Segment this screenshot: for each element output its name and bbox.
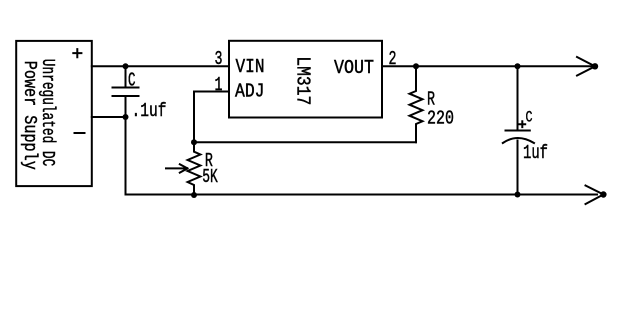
op-amp regulator U1 LM317 box <box>229 41 382 118</box>
svg-text:C: C <box>526 109 533 127</box>
junction dot top rail at C1 <box>123 63 129 69</box>
output arrow bottom <box>586 186 604 205</box>
wire ADJ vertical <box>193 92 195 143</box>
minus terminal <box>75 132 85 134</box>
svg-text:220: 220 <box>427 108 454 130</box>
plus polarity mark <box>519 121 525 127</box>
power supply box <box>16 41 92 186</box>
plus terminal <box>73 49 81 57</box>
svg-text:VOUT: VOUT <box>334 57 374 79</box>
wire ADJ run to R1 <box>194 141 416 143</box>
svg-text:ADJ: ADJ <box>235 80 265 102</box>
svg-text:LM317: LM317 <box>292 56 314 105</box>
junction dot bottom rail at C2 <box>515 192 521 198</box>
output arrow top <box>577 57 595 76</box>
junction dot bottom rail at pot <box>191 192 197 198</box>
svg-text:1uf: 1uf <box>523 142 548 164</box>
wire left vertical drop to bottom rail <box>125 117 127 195</box>
svg-text:5K: 5K <box>202 166 218 188</box>
svg-text:C: C <box>128 70 136 92</box>
junction dot VOUT rail at C2 <box>515 63 521 69</box>
dot at top arrow tip <box>592 63 598 69</box>
resistor R1 220 <box>410 66 423 142</box>
wire supply minus to capacitor C1 <box>92 116 126 118</box>
svg-text:2: 2 <box>389 48 397 70</box>
capacitor C2 1uf <box>503 66 534 194</box>
svg-text:Power Supply: Power Supply <box>19 61 39 170</box>
wiper arrow <box>166 164 188 172</box>
svg-text:1: 1 <box>215 74 223 96</box>
capacitor C1 <box>113 66 139 117</box>
wire bottom rail <box>126 194 598 196</box>
dot at bottom arrow tip <box>600 191 606 197</box>
svg-text:.1uf: .1uf <box>132 100 167 122</box>
svg-text:3: 3 <box>215 48 223 70</box>
junction dot ADJ at pot top <box>191 139 197 145</box>
svg-text:VIN: VIN <box>236 56 265 78</box>
potentiometer R2 5K <box>188 142 201 195</box>
wire VOUT rail <box>382 65 591 67</box>
wire ADJ pin 1 <box>194 91 229 93</box>
junction dot VOUT rail at R1 <box>413 63 419 69</box>
svg-text:Unregulated DC: Unregulated DC <box>37 59 57 167</box>
junction dot minus wire at C1 <box>123 114 129 120</box>
wire top rail supply to LM317 VIN <box>92 65 229 67</box>
